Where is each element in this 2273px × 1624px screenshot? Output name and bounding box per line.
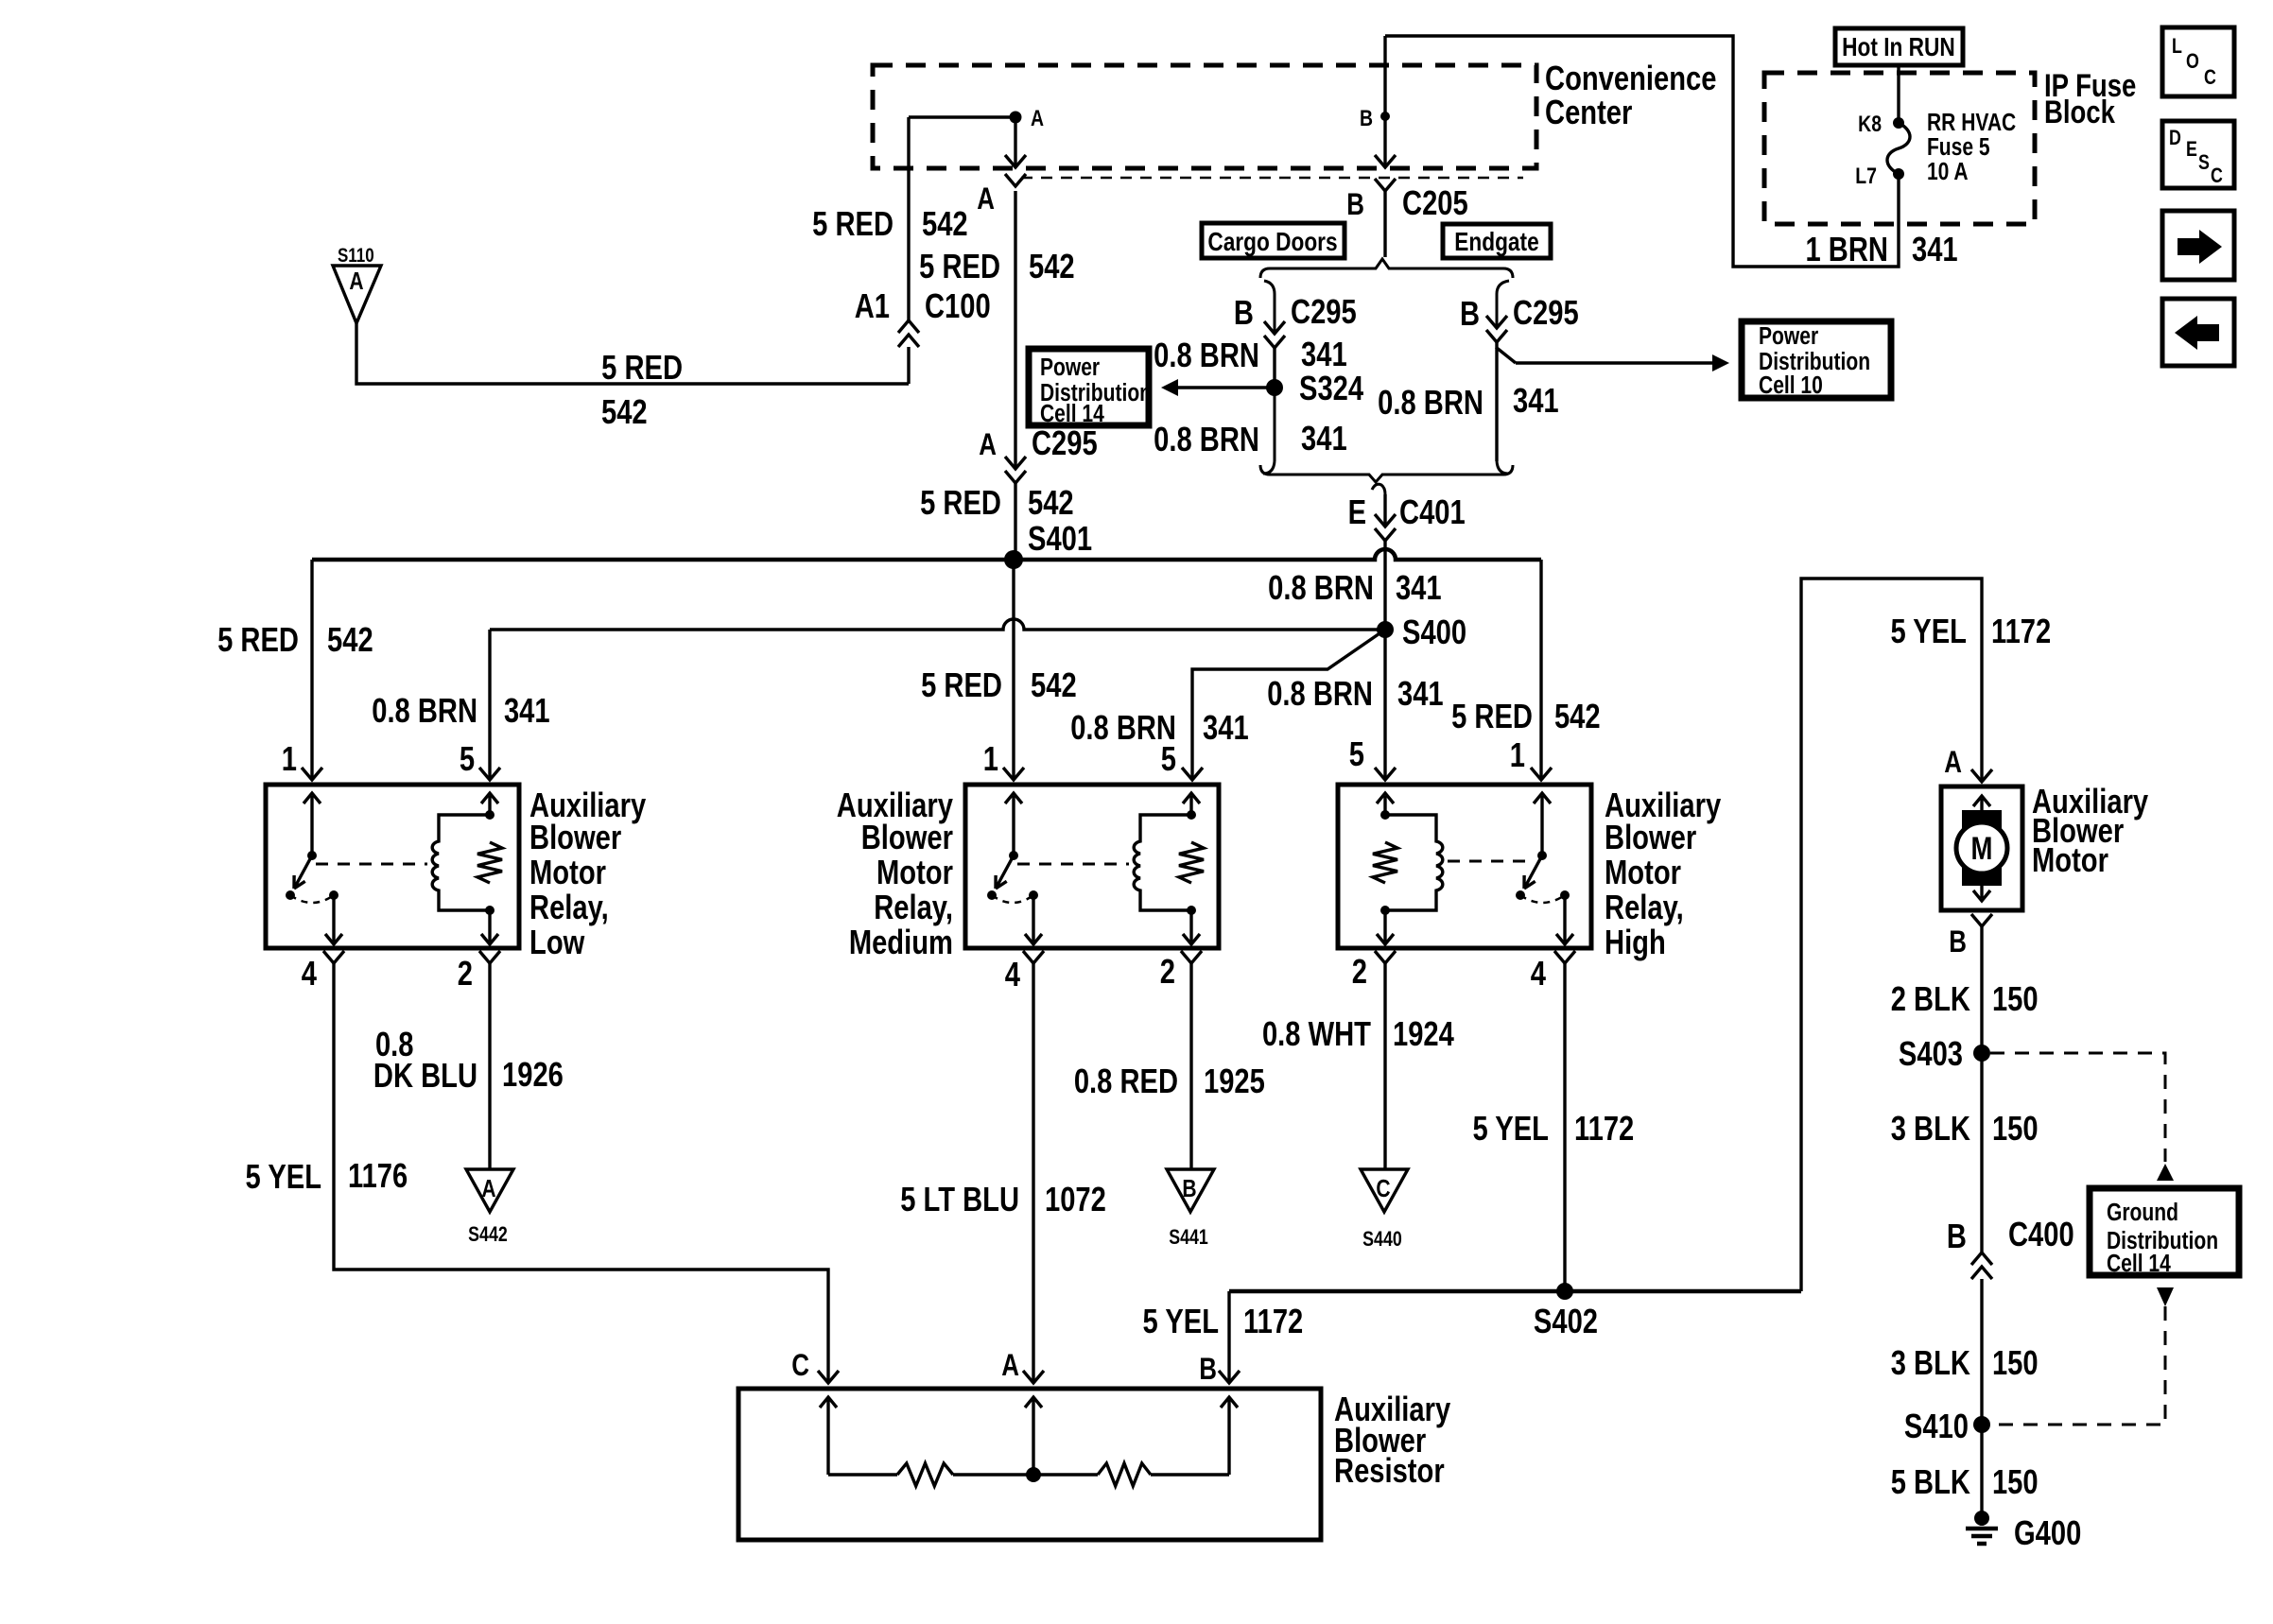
motor M1 circle (1956, 822, 2007, 873)
svg-text:542: 542 (327, 620, 373, 659)
svg-text:1926: 1926 (502, 1055, 564, 1094)
relay Auxiliary Blower Motor Relay Medium (965, 785, 1219, 948)
svg-text:5 RED: 5 RED (921, 665, 1002, 704)
label Cargo Doors (box) (1202, 223, 1345, 258)
svg-text:D: D (2169, 127, 2181, 149)
svg-text:0.8 RED: 0.8 RED (1074, 1062, 1178, 1100)
svg-text:A: A (979, 429, 997, 462)
connector C205 pin A exit (1005, 155, 1026, 167)
pin L7 (1893, 168, 1904, 180)
svg-text:150: 150 (1992, 1343, 2039, 1382)
svg-text:A1: A1 (855, 286, 890, 325)
wire S400 to relay low pin 5 (488, 630, 491, 780)
wire low pin 2 to S442 (479, 951, 500, 963)
svg-text:C: C (2204, 66, 2216, 89)
svg-text:150: 150 (1992, 1462, 2039, 1501)
splice S324 (1266, 379, 1283, 396)
wire cargo branch hook (1264, 281, 1275, 334)
svg-text:Cell 14: Cell 14 (1040, 401, 1105, 428)
svg-text:A: A (481, 1176, 495, 1203)
svg-text:S401: S401 (1028, 519, 1092, 558)
wire medium pin 4 to resistor pin A (1023, 951, 1044, 963)
svg-text:K8: K8 (1858, 111, 1882, 136)
svg-text:3 BLK: 3 BLK (1891, 1343, 1971, 1382)
wire C401 top hook (1372, 484, 1385, 494)
svg-text:542: 542 (1554, 697, 1601, 735)
svg-text:C: C (1376, 1176, 1390, 1203)
split brace bottom (1260, 465, 1513, 482)
splice S402 (1556, 1283, 1573, 1300)
svg-text:Endgate: Endgate (1454, 228, 1538, 257)
svg-text:2: 2 (1160, 952, 1175, 991)
wire B up internal (1383, 36, 1386, 116)
svg-text:Motor: Motor (1605, 853, 1681, 891)
svg-text:2: 2 (1352, 952, 1367, 991)
motor M1 armature (1962, 810, 2002, 886)
svg-text:5 BLK: 5 BLK (1891, 1462, 1971, 1501)
component Convenience Center (dashed box) (873, 65, 1536, 168)
wire 1 BRN 341 fuse to node B (1385, 36, 1899, 267)
svg-text:L: L (2172, 35, 2182, 58)
connector chevron motor pin B (1971, 914, 1992, 926)
svg-text:1: 1 (1510, 735, 1525, 774)
svg-text:Block: Block (2044, 94, 2116, 130)
wire arrow to Power Distribution Cell 14 (1176, 386, 1275, 389)
svg-text:C: C (2211, 164, 2223, 187)
wire 3 BLK 150 below C400 (1980, 1279, 1983, 1425)
svg-text:5 RED: 5 RED (812, 204, 894, 243)
svg-text:150: 150 (1992, 979, 2039, 1018)
wire S400 diagonal to relay medium pin 5 (1192, 630, 1385, 780)
svg-text:C295: C295 (1513, 293, 1579, 332)
wire B down internal (1383, 116, 1386, 167)
wire splice line S401 (312, 549, 1541, 560)
svg-text:341: 341 (1301, 335, 1347, 373)
svg-text:0.8 BRN: 0.8 BRN (1154, 336, 1259, 374)
pin K8 (1893, 117, 1904, 129)
motor internal top stub (1980, 799, 1983, 811)
svg-text:S440: S440 (1362, 1228, 1402, 1251)
svg-text:Relay,: Relay, (874, 888, 953, 926)
svg-text:High: High (1605, 923, 1666, 961)
motor internal bottom stub (1980, 886, 1983, 898)
wire endgate branch hook (1497, 281, 1509, 328)
svg-text:5 RED: 5 RED (217, 620, 299, 659)
relay K? Auxiliary Blower Motor Relay Low (266, 785, 519, 948)
wire S400 to relay high pin 5 (1383, 630, 1386, 780)
connector C205 pin B exit (1375, 155, 1396, 167)
svg-text:C401: C401 (1399, 492, 1466, 531)
svg-text:1072: 1072 (1045, 1180, 1106, 1218)
svg-text:S403: S403 (1899, 1034, 1963, 1073)
wire 5 RED 542 from S110 (356, 323, 909, 384)
svg-text:B: B (1234, 293, 1254, 332)
svg-text:4: 4 (302, 954, 318, 993)
svg-text:1172: 1172 (1991, 612, 2051, 650)
svg-text:150: 150 (1992, 1109, 2039, 1148)
svg-text:5 YEL: 5 YEL (1143, 1302, 1219, 1340)
svg-text:0.8 BRN: 0.8 BRN (1154, 420, 1259, 458)
connector C100 (898, 320, 919, 333)
wire cargo branch to S324 (1273, 348, 1275, 388)
svg-text:Blower: Blower (529, 818, 621, 856)
resistor internal pin A stub (1032, 1400, 1034, 1475)
splice S401 (1004, 550, 1023, 569)
component Auxiliary Blower Motor (box) (1941, 786, 2022, 910)
svg-text:S402: S402 (1534, 1302, 1598, 1340)
split brace top (1260, 259, 1513, 278)
wire S401 to relay low pin 1 (310, 560, 313, 780)
svg-text:10 A: 10 A (1927, 159, 1969, 186)
svg-text:1: 1 (282, 739, 297, 778)
svg-text:S110: S110 (338, 245, 374, 267)
fuse F5 RR HVAC (1887, 123, 1910, 174)
svg-text:5 LT BLU: 5 LT BLU (900, 1180, 1019, 1218)
svg-text:5 YEL: 5 YEL (1472, 1109, 1548, 1148)
svg-text:0.8 WHT: 0.8 WHT (1262, 1014, 1371, 1053)
connector chevron resistor pin C (818, 1371, 839, 1383)
svg-text:B: B (1360, 105, 1373, 130)
svg-text:5 YEL: 5 YEL (246, 1157, 321, 1196)
svg-text:B: B (1947, 1217, 1967, 1255)
relay Auxiliary Blower Motor Relay High (1338, 785, 1591, 948)
svg-text:S: S (2198, 151, 2210, 174)
svg-text:A: A (1944, 747, 1962, 780)
harness boundary thin dashed line (1021, 177, 1523, 180)
svg-text:542: 542 (601, 392, 648, 431)
svg-text:Blower: Blower (861, 818, 953, 856)
wire low pin 4 to resistor pin C (334, 963, 828, 1383)
svg-text:Cargo Doors: Cargo Doors (1207, 228, 1337, 257)
svg-text:Fuse 5: Fuse 5 (1927, 134, 1990, 162)
svg-text:Cell 14: Cell 14 (2107, 1251, 2172, 1278)
svg-text:Motor: Motor (529, 853, 606, 891)
svg-text:B: B (1949, 926, 1967, 959)
resistor internal pin B stub (1227, 1400, 1230, 1475)
wire from Hot In RUN (1897, 63, 1900, 123)
wire B to split brace (1383, 191, 1386, 257)
wire to C100 (907, 347, 910, 384)
svg-text:5 RED: 5 RED (601, 348, 683, 387)
svg-text:Cell 10: Cell 10 (1759, 372, 1823, 400)
button back (left arrow) (2162, 299, 2234, 366)
svg-text:341: 341 (1513, 381, 1559, 420)
svg-text:0.8 BRN: 0.8 BRN (1268, 568, 1374, 607)
svg-text:5 RED: 5 RED (919, 247, 1000, 285)
svg-text:542: 542 (1029, 247, 1075, 285)
svg-text:341: 341 (1912, 230, 1958, 268)
svg-text:Resistor: Resistor (1334, 1451, 1445, 1490)
svg-text:S442: S442 (468, 1223, 508, 1246)
svg-text:C100: C100 (925, 286, 991, 325)
svg-text:RR HVAC: RR HVAC (1927, 110, 2016, 137)
svg-text:2 BLK: 2 BLK (1891, 979, 1971, 1018)
reference Power Distribution Cell 14 (box) (1029, 349, 1149, 425)
wire S402 to resistor pin B (1227, 1291, 1230, 1383)
svg-text:C295: C295 (1032, 423, 1098, 462)
wire 2 BLK 150 (1980, 926, 1983, 1053)
svg-text:5: 5 (1161, 739, 1176, 778)
svg-text:341: 341 (1396, 568, 1442, 607)
wire S401 to relay medium pin 1 (1012, 560, 1015, 780)
svg-text:M: M (1971, 830, 1993, 866)
svg-text:B: B (1199, 1354, 1217, 1387)
svg-text:1925: 1925 (1204, 1062, 1265, 1100)
svg-text:C295: C295 (1291, 292, 1357, 331)
wire S402 to motor (loop) (1801, 579, 1982, 1291)
svg-text:1924: 1924 (1393, 1014, 1455, 1053)
connector C400 pin B (1971, 1253, 1992, 1265)
svg-text:B: B (1460, 294, 1480, 333)
svg-text:C400: C400 (2008, 1215, 2074, 1253)
wire C100 up to node A (907, 117, 910, 320)
node A (Convenience Center) (1010, 112, 1022, 124)
reference Ground Distribution Cell 14 (box) (2090, 1188, 2239, 1275)
svg-text:5: 5 (1349, 734, 1364, 773)
svg-text:C: C (791, 1350, 809, 1383)
svg-text:Relay,: Relay, (529, 888, 609, 926)
svg-text:542: 542 (922, 204, 968, 243)
splice S441 (triangle B) (1167, 1169, 1214, 1212)
label Hot In RUN (box) (1835, 28, 1963, 65)
svg-text:1176: 1176 (348, 1156, 408, 1195)
svg-text:A: A (977, 183, 995, 216)
svg-text:Center: Center (1545, 93, 1633, 131)
svg-text:Motor: Motor (876, 853, 953, 891)
wire endgate split diagonal (1497, 342, 1516, 363)
button next (right arrow) (2162, 211, 2234, 280)
node B (Convenience Center) (1380, 112, 1390, 121)
svg-text:DK BLU: DK BLU (373, 1056, 477, 1095)
svg-text:4: 4 (1531, 954, 1547, 993)
connector C295 pin B (cargo) (1264, 321, 1285, 334)
svg-text:A: A (349, 268, 363, 296)
wire high pin 2 to S440 (1375, 951, 1396, 963)
svg-text:4: 4 (1005, 955, 1021, 993)
resistor internal pin C stub (826, 1400, 829, 1475)
svg-text:Relay,: Relay, (1605, 888, 1684, 926)
wire A internal (909, 117, 1015, 167)
svg-text:Motor: Motor (2032, 840, 2108, 879)
svg-text:341: 341 (504, 691, 550, 730)
splice S410 (1973, 1416, 1990, 1433)
label Endgate (box) (1443, 224, 1551, 258)
dashed link S403 to ground distribution (1990, 1053, 2165, 1162)
wire 5 BLK 150 to G400 (1980, 1425, 1983, 1512)
svg-text:5 RED: 5 RED (1451, 697, 1533, 735)
svg-text:Hot In RUN: Hot In RUN (1842, 33, 1955, 62)
svg-text:Ground: Ground (2107, 1200, 2178, 1227)
node A junction (resistor) (1026, 1467, 1041, 1482)
svg-text:A: A (1001, 1350, 1019, 1383)
button DESC (2162, 121, 2234, 188)
svg-text:Power: Power (1040, 354, 1100, 382)
svg-text:341: 341 (1203, 708, 1249, 747)
svg-text:E: E (2186, 138, 2197, 161)
wire arrow to Power Distribution Cell 10 (1516, 361, 1712, 364)
wire cargo branch bottom hook (1263, 388, 1275, 474)
svg-text:1 BRN: 1 BRN (1805, 230, 1887, 268)
svg-text:B: B (1182, 1176, 1196, 1203)
svg-text:L7: L7 (1855, 163, 1877, 188)
svg-text:542: 542 (1028, 483, 1074, 522)
wire 3 BLK 150 to C400 (1980, 1053, 1983, 1253)
svg-text:S400: S400 (1402, 613, 1466, 651)
svg-text:A: A (1031, 105, 1044, 130)
connector chevron motor pin A (1980, 769, 1983, 782)
svg-text:341: 341 (1301, 419, 1347, 458)
svg-text:B: B (1346, 189, 1364, 222)
splice S403 (1973, 1045, 1990, 1062)
splice S400 (1377, 621, 1394, 638)
svg-text:Convenience: Convenience (1545, 59, 1716, 97)
svg-text:0.8 BRN: 0.8 BRN (372, 691, 477, 730)
svg-text:5 YEL: 5 YEL (1891, 612, 1967, 650)
wire medium pin 2 to S441 (1181, 951, 1202, 963)
svg-text:1172: 1172 (1243, 1302, 1303, 1340)
connector chevron resistor pin B (1219, 1371, 1240, 1383)
svg-text:0.8 BRN: 0.8 BRN (1267, 674, 1373, 713)
svg-text:G400: G400 (2014, 1513, 2081, 1552)
svg-text:S324: S324 (1299, 369, 1364, 407)
resistor element A-B (1033, 1473, 1098, 1476)
connector chevron resistor pin A (1023, 1371, 1044, 1383)
svg-text:Power: Power (1759, 323, 1818, 351)
svg-text:542: 542 (1031, 665, 1077, 704)
svg-text:5 RED: 5 RED (920, 483, 1001, 522)
svg-text:S410: S410 (1904, 1407, 1969, 1445)
wire splice line S400 (490, 619, 1385, 630)
wire endgate branch down (1495, 348, 1498, 461)
wire endgate branch bottom hook (1497, 461, 1508, 474)
svg-text:1172: 1172 (1574, 1109, 1634, 1148)
connector C401 pin E (1383, 494, 1386, 527)
connector C295 pin B (endgate) (1486, 316, 1507, 328)
wire 0.8 BRN to S401 crossing (1383, 541, 1386, 630)
wire high pin 4 to S402 (1554, 951, 1575, 963)
svg-text:0.8 BRN: 0.8 BRN (1378, 383, 1484, 422)
connector C295 pin A (1005, 457, 1026, 469)
resistor element C-A (828, 1473, 897, 1476)
wire splice line S402 (1229, 1289, 1801, 1294)
svg-text:3 BLK: 3 BLK (1891, 1109, 1971, 1148)
svg-text:Blower: Blower (1605, 818, 1696, 856)
splice S442 (triangle A) (466, 1169, 513, 1212)
wire S401 to relay high pin 1 (1539, 560, 1542, 780)
component IP Fuse Block (dashed box) (1764, 73, 2035, 224)
svg-text:C205: C205 (1402, 183, 1468, 222)
svg-text:S441: S441 (1169, 1226, 1208, 1249)
dashed link ground distribution to S410 (2157, 1287, 2174, 1306)
svg-text:E: E (1348, 492, 1366, 531)
ground G400 (1974, 1511, 1989, 1526)
wire 5 RED below C205-A (1014, 191, 1016, 469)
button LOC (2162, 27, 2234, 96)
svg-text:5: 5 (460, 739, 475, 778)
reference Power Distribution Cell 10 (box) (1742, 321, 1891, 398)
svg-text:O: O (2186, 50, 2199, 73)
chevron low pin4 exit (323, 951, 344, 963)
svg-text:Low: Low (529, 923, 585, 961)
component Auxiliary Blower Resistor (box) (738, 1389, 1321, 1540)
svg-text:Medium: Medium (849, 923, 953, 961)
svg-text:341: 341 (1397, 674, 1444, 713)
splice S440 (triangle C) (1361, 1169, 1408, 1212)
wire 5 RED to S401 (1014, 483, 1016, 560)
svg-text:1: 1 (983, 739, 998, 778)
svg-text:2: 2 (458, 954, 473, 993)
splice S110 (triangle A) (333, 266, 381, 323)
